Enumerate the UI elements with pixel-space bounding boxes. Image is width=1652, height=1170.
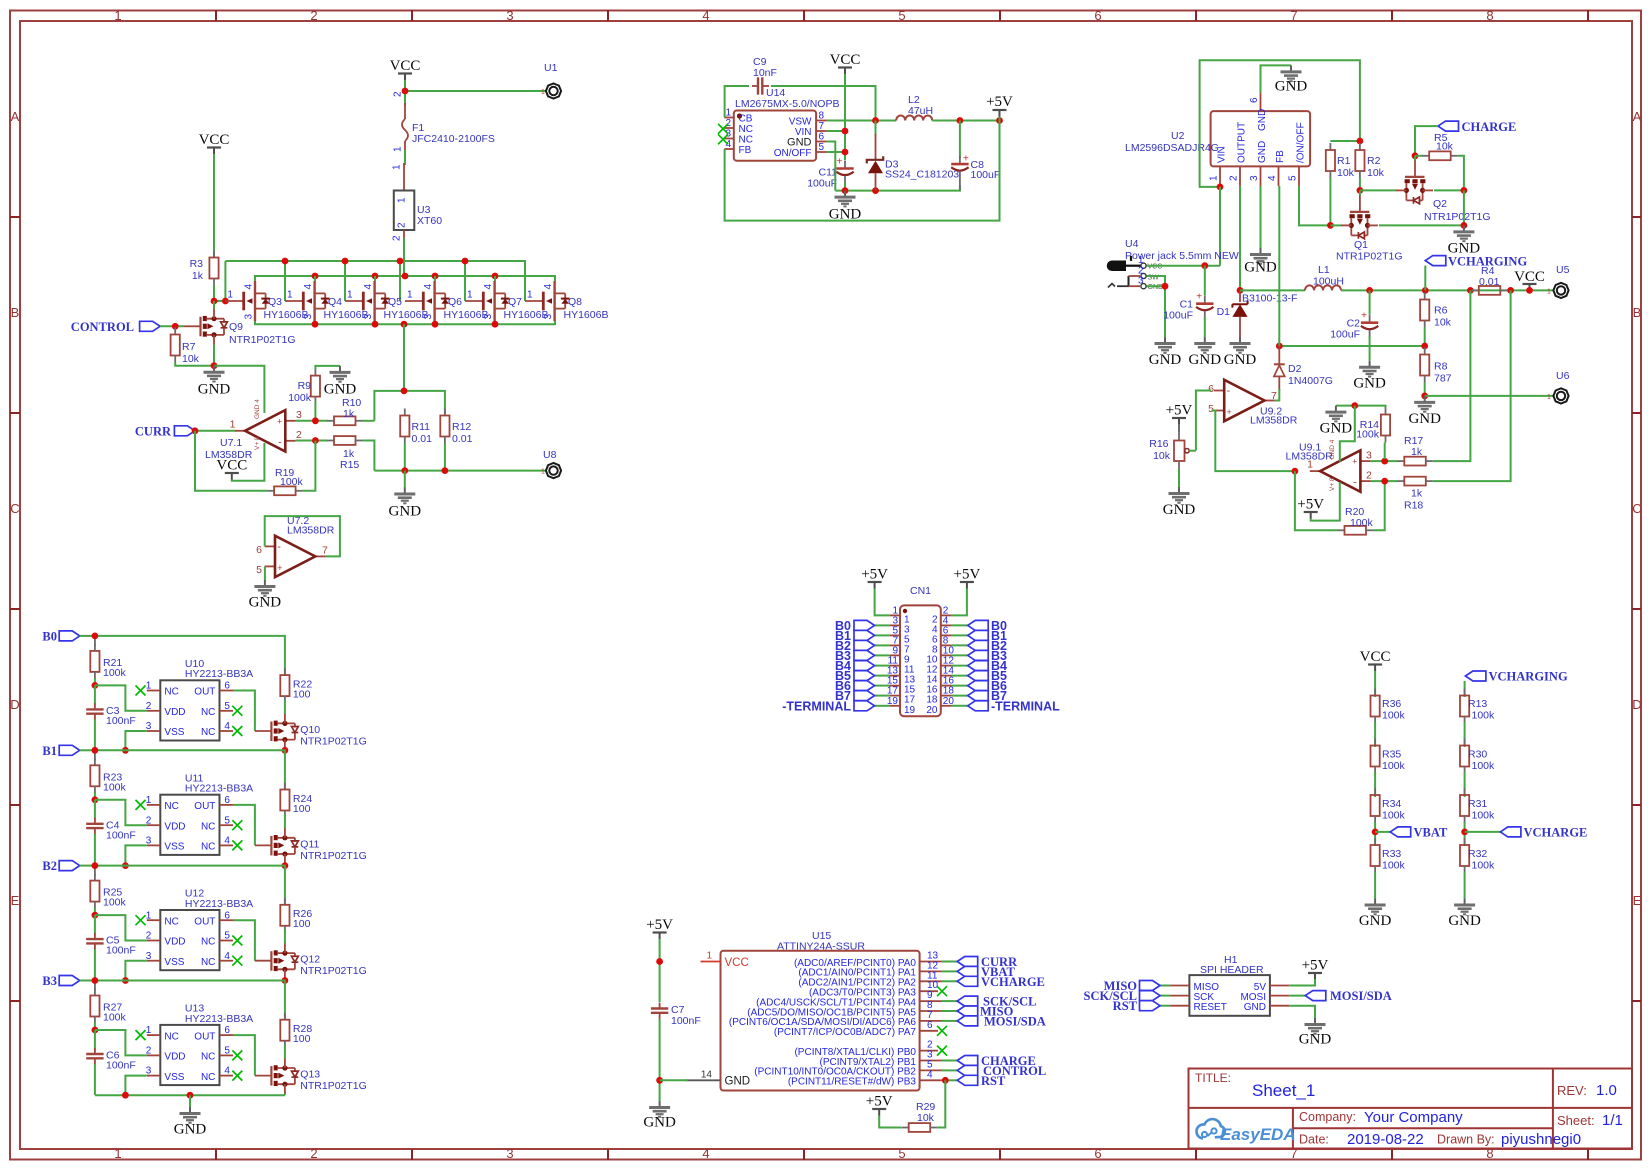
wire R8 node to U6 bbox=[1425, 395, 1553, 397]
wire jack sw-gnd bbox=[1147, 276, 1166, 286]
capacitor C9 10nF bbox=[752, 77, 769, 94]
svg-text:HY1606B: HY1606B bbox=[504, 309, 549, 321]
wire C11 to gnd rail bbox=[844, 182, 846, 191]
port CHARGE (U15) bbox=[957, 1054, 1036, 1068]
svg-text:+5V: +5V bbox=[986, 94, 1013, 110]
svg-text:1k: 1k bbox=[343, 408, 355, 420]
svg-text:OUTPUT: OUTPUT bbox=[1237, 122, 1248, 163]
svg-text:B: B bbox=[1633, 305, 1642, 320]
wire GND node to opamp pwr bbox=[214, 366, 264, 413]
svg-text:HY2213-BB3A: HY2213-BB3A bbox=[185, 783, 253, 795]
svg-text:+5V: +5V bbox=[1297, 497, 1324, 513]
svg-text:NTR1P02T1G: NTR1P02T1G bbox=[1424, 211, 1491, 223]
svg-text:VCC: VCC bbox=[830, 52, 861, 68]
svg-text:R2: R2 bbox=[1367, 155, 1381, 167]
junction VIN node bbox=[1217, 184, 1224, 191]
svg-text:VCC: VCC bbox=[1148, 264, 1163, 271]
svg-text:100k: 100k bbox=[1382, 860, 1406, 872]
svg-text:4: 4 bbox=[927, 1069, 933, 1080]
wire VCHARGING down bbox=[1464, 681, 1466, 697]
svg-text:MOSI/SDA: MOSI/SDA bbox=[984, 1014, 1046, 1028]
svg-text:Sheet_1: Sheet_1 bbox=[1252, 1081, 1315, 1100]
svg-text:GND: GND bbox=[1275, 79, 1308, 95]
wire to GND bbox=[404, 471, 406, 488]
svg-text:R33: R33 bbox=[1382, 848, 1401, 860]
ground GND (C1) bbox=[1189, 337, 1222, 368]
ground GND (R32) bbox=[1448, 899, 1481, 930]
port SCK/SCL (U15) bbox=[957, 995, 1036, 1009]
svg-text:GND: GND bbox=[1163, 502, 1196, 518]
wire R6 bottom bbox=[1424, 328, 1426, 347]
svg-text:100k: 100k bbox=[1382, 810, 1406, 822]
svg-text:E: E bbox=[11, 893, 20, 908]
left battery tap wires bbox=[874, 625, 889, 705]
ground GND (cells) bbox=[174, 1095, 207, 1137]
svg-text:100k: 100k bbox=[103, 1012, 127, 1024]
wire R32 to GND bbox=[1464, 872, 1466, 899]
wire VCC to R3 bbox=[213, 154, 215, 258]
junction pin4 riser bbox=[1351, 402, 1358, 409]
svg-text:CURR: CURR bbox=[135, 425, 172, 439]
wire R18 to R4 right riser bbox=[1433, 290, 1511, 481]
power flag +5V (R16) bbox=[1166, 403, 1193, 425]
svg-text:100uH: 100uH bbox=[1313, 276, 1344, 288]
IC U15 ATTINY24A-SSUR bbox=[686, 930, 942, 1091]
wire pin2 bbox=[1371, 480, 1398, 482]
svg-text:1: 1 bbox=[1138, 255, 1144, 266]
svg-text:100nF: 100nF bbox=[106, 1060, 136, 1072]
svg-text:VCC: VCC bbox=[1514, 269, 1545, 285]
svg-text:3: 3 bbox=[506, 8, 513, 23]
resistor R6 10k bbox=[1420, 293, 1452, 329]
svg-text:Q3: Q3 bbox=[268, 296, 282, 308]
svg-text:3: 3 bbox=[725, 129, 731, 140]
svg-text:NTR1P02T1G: NTR1P02T1G bbox=[300, 850, 367, 862]
junction R2 bottom bbox=[1357, 187, 1364, 194]
wire R2 node to Q2 left bbox=[1360, 189, 1397, 191]
junction B1 line dots bbox=[122, 747, 129, 754]
svg-text:U4: U4 bbox=[1125, 238, 1139, 250]
wire R2 bottom to Q2 bbox=[1359, 178, 1361, 190]
resistor R9 100k bbox=[288, 369, 320, 404]
resistor R19 100k bbox=[267, 467, 303, 495]
svg-text:2: 2 bbox=[392, 235, 403, 241]
svg-text:3: 3 bbox=[1249, 175, 1260, 181]
svg-text:2: 2 bbox=[1366, 470, 1372, 482]
svg-text:1: 1 bbox=[392, 164, 403, 170]
junction pin3 node bbox=[1381, 458, 1388, 465]
svg-text:CHARGE: CHARGE bbox=[1462, 120, 1517, 134]
svg-text:MOSI/SDA: MOSI/SDA bbox=[1330, 989, 1392, 1003]
svg-text:100k: 100k bbox=[1472, 860, 1496, 872]
svg-text:10k: 10k bbox=[182, 353, 200, 365]
junction sense top bbox=[401, 388, 408, 395]
wires PA ports bbox=[942, 962, 957, 1081]
resistor R18 1k bbox=[1397, 477, 1433, 486]
svg-text:R36: R36 bbox=[1382, 698, 1401, 710]
svg-text:U8: U8 bbox=[543, 449, 557, 461]
svg-text:R3: R3 bbox=[190, 258, 204, 270]
sense bus bottom bbox=[374, 470, 545, 472]
junction Q2 right bbox=[1461, 187, 1468, 194]
svg-text:CONTROL: CONTROL bbox=[71, 320, 134, 334]
svg-text:EasyEDA: EasyEDA bbox=[1220, 1125, 1296, 1144]
svg-text:B3: B3 bbox=[42, 974, 57, 988]
right battery tap wires bbox=[952, 625, 968, 705]
svg-text:R15: R15 bbox=[340, 459, 359, 471]
op-amp U9.1 bbox=[1286, 439, 1373, 492]
resistor R15 1k bbox=[327, 436, 363, 471]
wire R1 bottom bbox=[1329, 178, 1331, 225]
port MOSI/SDA (H1) bbox=[1305, 989, 1392, 1003]
svg-text:GND: GND bbox=[1448, 913, 1481, 929]
wire gnd riser bbox=[1463, 190, 1465, 225]
junction C1 top bbox=[1201, 262, 1208, 269]
svg-text:NTR1P02T1G: NTR1P02T1G bbox=[1336, 251, 1403, 263]
svg-text:10k: 10k bbox=[1367, 167, 1385, 179]
svg-text:GND: GND bbox=[174, 1122, 207, 1138]
capacitor C1 100uF bbox=[1163, 266, 1213, 337]
wire ON/OFF down bbox=[1299, 186, 1330, 225]
junction B2 line dots bbox=[122, 862, 129, 869]
resistor R4 0.01 bbox=[1472, 286, 1508, 295]
op-amp U9.2 bbox=[1208, 380, 1298, 427]
svg-text:GND: GND bbox=[787, 137, 812, 149]
junction R8 bottom bbox=[1421, 393, 1428, 400]
wire +5V to pin1 bbox=[875, 589, 890, 616]
svg-text:Q8: Q8 bbox=[568, 296, 582, 308]
wire R15 right to sense bottom bbox=[363, 441, 375, 471]
svg-text:piyushnegi0: piyushnegi0 bbox=[1501, 1131, 1581, 1148]
svg-text:SS24_C181203: SS24_C181203 bbox=[885, 169, 959, 181]
svg-text:1: 1 bbox=[541, 469, 545, 476]
transistor Q2 bbox=[1396, 160, 1491, 223]
svg-text:+: + bbox=[963, 154, 969, 165]
svg-text:Drawn By:: Drawn By: bbox=[1437, 1133, 1495, 1147]
svg-text:3: 3 bbox=[506, 1146, 513, 1161]
junction FB left bbox=[1276, 343, 1283, 350]
no-connect X PA3 bbox=[937, 986, 947, 996]
svg-text:GND: GND bbox=[1244, 260, 1277, 276]
junction pin2 node bbox=[312, 437, 319, 444]
wire VCC to opamp pin8 bbox=[232, 443, 265, 481]
transistor Q7 bbox=[465, 281, 548, 321]
wire VCHARGING down bbox=[1424, 266, 1426, 291]
wire pin3 to GND bbox=[1260, 186, 1262, 248]
wire out to R20 bbox=[1295, 471, 1338, 530]
wire +5V to pin8 bbox=[1311, 482, 1340, 521]
ground GND (U14) bbox=[829, 191, 862, 223]
svg-text:1: 1 bbox=[541, 89, 545, 96]
wire VCC down bbox=[1374, 671, 1376, 697]
ground GND (R16) bbox=[1163, 487, 1196, 518]
power flag VCC (top) bbox=[390, 58, 421, 80]
ground GND (C2) bbox=[1353, 361, 1386, 392]
junction D1 top bbox=[1237, 287, 1244, 294]
port CURR bbox=[135, 425, 195, 439]
wire source rail to sense bus bbox=[403, 324, 405, 391]
svg-text:6: 6 bbox=[1208, 383, 1214, 395]
svg-text:CN1: CN1 bbox=[910, 585, 931, 597]
resistor R5 10k bbox=[1422, 132, 1458, 160]
port B3 bbox=[42, 974, 79, 988]
power flag VCC (ladder) bbox=[1360, 649, 1391, 671]
port B2 bbox=[42, 859, 79, 873]
svg-text:NTR1P02T1G: NTR1P02T1G bbox=[300, 965, 367, 977]
svg-text:HY1606B: HY1606B bbox=[564, 309, 609, 321]
svg-text:10k: 10k bbox=[1337, 167, 1355, 179]
svg-text:A: A bbox=[1633, 109, 1642, 124]
junction GND node bbox=[656, 1077, 663, 1084]
balancer cell U10 bbox=[80, 633, 367, 751]
wire VBAT port bbox=[1375, 831, 1390, 833]
svg-text:R16: R16 bbox=[1149, 438, 1168, 450]
svg-text:R31: R31 bbox=[1468, 798, 1487, 810]
resistor R8 787 bbox=[1420, 348, 1452, 385]
port MISO (U15) bbox=[957, 1005, 1013, 1019]
gate drop Q5 bbox=[344, 261, 346, 301]
svg-text:B0: B0 bbox=[42, 630, 57, 644]
gate bus rail bbox=[225, 261, 525, 301]
svg-text:GND 4: GND 4 bbox=[254, 399, 261, 419]
ground GND (H1) bbox=[1299, 1018, 1332, 1048]
wire F1 to U3 bbox=[404, 150, 406, 165]
diode D2 1N4007G bbox=[1274, 346, 1333, 391]
balancer cell U13 bbox=[80, 977, 367, 1095]
wire L2 to +5V bbox=[932, 120, 999, 122]
junction Q1 right bbox=[1461, 222, 1468, 229]
svg-text:100nF: 100nF bbox=[106, 829, 136, 841]
svg-text:100k: 100k bbox=[280, 476, 304, 488]
transistor Q4 bbox=[285, 281, 368, 321]
label R4 bbox=[1479, 265, 1500, 288]
label R20 bbox=[1345, 506, 1374, 529]
svg-text:ATTINY24A-SSUR: ATTINY24A-SSUR bbox=[777, 940, 865, 952]
junction U9.1 out bbox=[1292, 468, 1299, 475]
wire R30-R31 bbox=[1464, 772, 1466, 797]
port RST (U15) bbox=[957, 1074, 1006, 1088]
junction jack gnd bbox=[1162, 283, 1169, 290]
svg-text:E: E bbox=[1633, 893, 1642, 908]
svg-text:JFC2410-2100FS: JFC2410-2100FS bbox=[412, 133, 495, 145]
wire C8 down bbox=[959, 121, 961, 159]
ground GND (U7.2) bbox=[249, 580, 282, 611]
svg-text:LM358DR: LM358DR bbox=[287, 525, 335, 537]
svg-text:HY1606B: HY1606B bbox=[384, 309, 429, 321]
port CONTROL bbox=[71, 320, 160, 334]
wire R3 to gate node bbox=[213, 285, 215, 301]
power flag +5V (U9.1) bbox=[1297, 497, 1324, 519]
svg-text:5: 5 bbox=[1288, 175, 1299, 181]
wire R5 right down bbox=[1458, 156, 1464, 191]
label R29 bbox=[916, 1101, 935, 1124]
svg-text:100nF: 100nF bbox=[106, 715, 136, 727]
wire U9.2 out to D2 bbox=[1275, 389, 1280, 401]
wire RST pullup bbox=[937, 1080, 945, 1127]
svg-text:100nF: 100nF bbox=[106, 945, 136, 957]
junction R18 riser top bbox=[1507, 287, 1514, 294]
svg-text:1: 1 bbox=[393, 146, 404, 152]
junction R7 top bbox=[172, 323, 179, 330]
junction VCHARGE bbox=[1461, 829, 1468, 836]
svg-text:1N4007G: 1N4007G bbox=[1288, 375, 1333, 387]
junction VCC/U1 bbox=[402, 88, 409, 95]
svg-text:VCC: VCC bbox=[725, 957, 749, 969]
svg-text:GND: GND bbox=[1359, 913, 1392, 929]
ground GND (R9) bbox=[324, 366, 357, 398]
junction R6/R8 bbox=[1421, 343, 1428, 350]
resistor R20 100k bbox=[1338, 526, 1374, 535]
ground GND (U2 pin6) bbox=[1275, 65, 1308, 94]
svg-text:1: 1 bbox=[706, 951, 712, 962]
diode D1 B3100-13-F bbox=[1217, 290, 1298, 337]
ground GND (D1) bbox=[1224, 337, 1257, 368]
wire R9 top to GND bbox=[315, 366, 340, 370]
wire R36-R35 bbox=[1374, 722, 1376, 747]
ground GND (sense) bbox=[389, 488, 422, 520]
svg-text:100: 100 bbox=[293, 689, 311, 701]
svg-text:D: D bbox=[10, 697, 19, 712]
source rail bbox=[255, 321, 555, 325]
right ports B0-B7/-TERMINAL bbox=[968, 619, 1060, 713]
resistor R10 1k bbox=[327, 397, 363, 425]
wire CHARGE to R5 node bbox=[1415, 126, 1438, 156]
svg-text:100: 100 bbox=[293, 803, 311, 815]
svg-text:2019-08-22: 2019-08-22 bbox=[1347, 1131, 1424, 1148]
svg-text:R6: R6 bbox=[1434, 305, 1448, 317]
svg-text:+5V: +5V bbox=[954, 567, 981, 583]
wire jack gnd down bbox=[1147, 286, 1166, 337]
capacitor C8 100uF bbox=[951, 154, 1000, 191]
svg-text:GND: GND bbox=[1299, 1032, 1332, 1048]
resistor R14 100k bbox=[1356, 408, 1390, 443]
connector U3 XT60 bbox=[392, 163, 443, 241]
resistor R3 1k bbox=[190, 251, 219, 286]
wire Q9 drain to gate node bbox=[213, 301, 215, 309]
svg-text:R7: R7 bbox=[182, 341, 196, 353]
svg-text:4: 4 bbox=[702, 1146, 709, 1161]
svg-text:R35: R35 bbox=[1382, 749, 1401, 761]
junction CURR node bbox=[192, 427, 199, 434]
wire +5V stem bbox=[999, 117, 1001, 121]
svg-text:1/1: 1/1 bbox=[1602, 1112, 1623, 1129]
wire D1 to L1 bbox=[1240, 289, 1305, 291]
svg-text:R34: R34 bbox=[1382, 798, 1401, 810]
FB bus bbox=[1279, 345, 1424, 347]
wire GND pin bbox=[1289, 1006, 1315, 1018]
power flag +5V (CN1 right) bbox=[954, 567, 981, 589]
wire R29 to +5V bbox=[879, 1115, 901, 1128]
svg-text:14: 14 bbox=[701, 1069, 713, 1080]
wire R35-R34 bbox=[1374, 772, 1376, 797]
svg-text:6: 6 bbox=[819, 132, 825, 143]
svg-text:7: 7 bbox=[1290, 8, 1297, 23]
wire +5V to R16 bbox=[1178, 425, 1180, 433]
wire Q2 gate stub bbox=[1414, 156, 1416, 161]
svg-text:U2: U2 bbox=[1171, 130, 1185, 142]
svg-text:787: 787 bbox=[1434, 373, 1452, 385]
no-connect X pin2 bbox=[718, 124, 728, 134]
svg-text:GND: GND bbox=[1148, 284, 1164, 291]
wire 5V pin bbox=[1289, 979, 1315, 986]
svg-text:RESET: RESET bbox=[1194, 1002, 1227, 1013]
svg-text:20: 20 bbox=[926, 705, 938, 716]
svg-text:R12: R12 bbox=[452, 421, 471, 433]
resistor R7 10k bbox=[171, 328, 200, 366]
resistor R12 0.01 bbox=[440, 409, 472, 446]
wire VCC to F1 bbox=[404, 80, 406, 105]
wire jack vcc to VIN bbox=[1147, 265, 1221, 267]
svg-text:10k: 10k bbox=[1434, 317, 1452, 329]
svg-text:FB: FB bbox=[1275, 150, 1286, 163]
svg-text:GND: GND bbox=[198, 382, 231, 398]
junction bottom rail dots bbox=[122, 1092, 129, 1099]
wire R19 to pin2 riser bbox=[303, 441, 316, 491]
svg-text:U5: U5 bbox=[1556, 264, 1570, 276]
wire R12 bottom bbox=[444, 444, 446, 471]
wire U3 to drain rail bbox=[403, 238, 405, 276]
power flag +5V (U15) bbox=[646, 917, 673, 939]
svg-text:GND: GND bbox=[1149, 352, 1182, 368]
junction source rail dots bbox=[312, 321, 319, 328]
port VCHARGE (U15) bbox=[957, 975, 1045, 989]
svg-text:1k: 1k bbox=[192, 270, 204, 282]
svg-text:+5V: +5V bbox=[1302, 958, 1329, 974]
junction R17 riser top bbox=[1467, 287, 1474, 294]
resistor R1 10k bbox=[1326, 143, 1355, 179]
svg-text:SPI HEADER: SPI HEADER bbox=[1200, 964, 1264, 976]
svg-text:GND: GND bbox=[1224, 352, 1257, 368]
wire VIN down to jack bbox=[1219, 187, 1221, 266]
svg-text:1: 1 bbox=[397, 197, 408, 203]
wire +5V to VCC pin bbox=[659, 939, 661, 1002]
connector U4 power jack bbox=[1107, 238, 1239, 291]
label R18 bbox=[1404, 488, 1423, 512]
op-amp U7.1 bbox=[205, 399, 302, 461]
diode D3 SS24 bbox=[867, 121, 960, 191]
wire R7 bottom to GND node bbox=[175, 363, 214, 366]
svg-text:-TERMINAL: -TERMINAL bbox=[782, 699, 851, 713]
port CURR (U15) bbox=[957, 955, 1018, 969]
svg-text:D: D bbox=[1632, 697, 1641, 712]
svg-text:R30: R30 bbox=[1468, 749, 1487, 761]
gate drop Q6 bbox=[399, 261, 401, 301]
svg-text:1.0: 1.0 bbox=[1596, 1082, 1617, 1099]
junction pin3 node bbox=[312, 417, 319, 424]
svg-text:GND 4: GND 4 bbox=[1329, 439, 1336, 459]
junction VBAT bbox=[1372, 829, 1379, 836]
svg-text:GND: GND bbox=[1353, 376, 1386, 392]
svg-text:REV:: REV: bbox=[1557, 1083, 1587, 1098]
svg-text:2: 2 bbox=[310, 1146, 317, 1161]
svg-text:4: 4 bbox=[725, 139, 731, 150]
svg-text:Q12: Q12 bbox=[300, 954, 320, 966]
resistor R32 100k bbox=[1460, 838, 1495, 873]
svg-text:100k: 100k bbox=[1350, 517, 1374, 529]
svg-text:5: 5 bbox=[256, 564, 262, 576]
wire R8 bottom bbox=[1424, 383, 1426, 396]
IC H1 SPI HEADER bbox=[1170, 954, 1289, 1016]
wire Q9 source to GND node bbox=[213, 345, 215, 366]
junction drain rail dots bbox=[312, 273, 319, 280]
svg-text:2: 2 bbox=[296, 429, 302, 441]
ground GND (R8) bbox=[1408, 396, 1441, 427]
wire pin3 bbox=[1371, 460, 1398, 462]
svg-text:+5V: +5V bbox=[1166, 403, 1193, 419]
wire U7.2 feedback loop bbox=[265, 516, 340, 556]
ground GND (U9.1) bbox=[1320, 406, 1353, 437]
junction VIN node bbox=[842, 128, 849, 135]
